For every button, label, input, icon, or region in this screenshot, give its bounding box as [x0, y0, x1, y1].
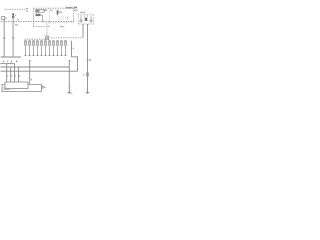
ground G2: [86, 92, 89, 94]
dashed box A bottom edge: [34, 26, 50, 28]
junction connector strip (left, with pin numbers): [1, 56, 22, 58]
label two-line above right box: [66, 7, 67, 9]
dashed enclosure top edge (igniter/sensor boxes): [34, 7, 74, 9]
label inside box A: [43, 9, 44, 10]
inline connector tick on W1: [3, 36, 5, 39]
bus line B2: [1, 70, 78, 72]
igniter unit U1 upper box: [36, 10, 45, 13]
wire from J1 down to shield bus: [82, 24, 84, 38]
dashed bus line across top: [1, 21, 75, 23]
inline connector tick on W2: [12, 36, 14, 39]
tick on ECM wire: [29, 77, 31, 79]
faint note text under bus (center): [59, 26, 62, 27]
inline tick on G2 wire: [87, 59, 89, 61]
label near B1: [15, 14, 16, 16]
long wire from J1 to ground G2: [87, 24, 89, 92]
ECU pin wire far right (routes to left bus): [72, 41, 78, 72]
wire flags/labels on drops: [6, 75, 9, 76]
label right of tick: [89, 59, 90, 61]
wire down from R1: [42, 15, 44, 22]
ECM connector outer box: [2, 84, 42, 91]
wire from S1 stub: [5, 17, 6, 19]
ECU dashed border line: [25, 38, 46, 40]
arrow to next sheet: [42, 86, 45, 88]
dashed vertical wire from box A to shield connector: [46, 24, 48, 36]
J1 dark component (middle): [85, 18, 88, 21]
dashed pair wires from sensor: [58, 17, 67, 19]
ECU pin row: pins P1..P11: [25, 41, 67, 55]
J1 element with circle (right): [90, 17, 92, 20]
splice hook on ground wire: [69, 59, 71, 62]
terminal ticks at wire ends: [25, 54, 67, 56]
dashed enclosure top-left segment: [5, 8, 26, 10]
dashed wire down to bus: [67, 17, 69, 22]
label above junction box J1: [79, 12, 82, 13]
J1 element with circle (left): [80, 17, 82, 20]
J1 internal pin stubs: [81, 15, 91, 17]
pin number labels: [3, 61, 4, 63]
drop wires into ECM connector: [7, 64, 15, 82]
connector stubs between U1 and R1: [36, 12, 38, 14]
junction box J1 dashed border (top right): [78, 14, 94, 24]
tick on ground wire: [68, 86, 70, 88]
junction strip bottom line: [1, 63, 15, 65]
label left of C5: [83, 74, 84, 76]
pin-row bottom alignment line: [25, 44, 67, 46]
wire W2 down from B1: [12, 18, 14, 57]
dashed box A right edge: [49, 8, 51, 26]
label near far right pin wire: [73, 48, 74, 49]
resistor R1 (dark bar): [36, 14, 41, 16]
switch S1 top-left box: [2, 17, 5, 20]
sensor B1 (single-pin component): [12, 13, 14, 15]
bus line B1: [1, 66, 70, 68]
shield connector box C1: [46, 36, 49, 40]
dashed enclosure right edge: [73, 8, 75, 21]
faint note text under bus (left): [14, 24, 17, 25]
dashed shield wire to right: [49, 37, 83, 39]
ECM pin strip box: [5, 82, 28, 88]
label right of box A: [50, 10, 51, 11]
dashed bus second line (lower): [43, 22, 74, 24]
ground G1: [68, 92, 71, 94]
label block upper right of bar: [74, 7, 77, 9]
wire from R1 to right: [41, 14, 43, 16]
label right of CMP sensor: [60, 12, 61, 14]
label near S1: [6, 18, 7, 20]
wire W1 down from S1: [3, 20, 5, 58]
label right of G1: [70, 93, 73, 94]
label right of ECM wire: [31, 79, 32, 81]
inline connector C5 on G2 wire: [86, 73, 88, 76]
CMP sensor B2: [57, 10, 59, 16]
faint label above bus left: [16, 19, 19, 20]
splice hook on wire to ECM: [29, 59, 31, 62]
wire down to ECM connector: [29, 61, 31, 84]
dashed box A left edge: [33, 8, 35, 26]
ground wire down: [68, 61, 70, 92]
label text top-center-left: [25, 8, 28, 9]
ECM connector inner corner line: [4, 87, 10, 90]
